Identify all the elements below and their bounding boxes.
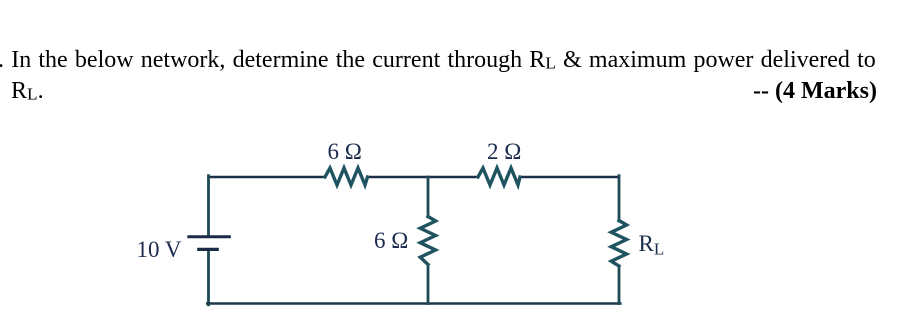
wire bottom xyxy=(207,302,620,305)
svg-text:2 Ω: 2 Ω xyxy=(487,139,521,164)
wire left vertical upper xyxy=(207,176,210,236)
resistor 2 ohm horizontal zigzag xyxy=(478,168,520,185)
battery V1 long plate xyxy=(189,235,230,238)
svg-text:6 Ω: 6 Ω xyxy=(328,139,362,164)
wire top-right segment xyxy=(520,176,619,179)
svg-text:6 Ω: 6 Ω xyxy=(374,228,408,253)
question text line 1 xyxy=(0,47,876,74)
wire right vertical lower xyxy=(618,266,621,304)
wire top-left segment xyxy=(209,176,326,179)
question text line 2 xyxy=(11,78,44,105)
marks label xyxy=(753,78,877,105)
wire middle vertical upper xyxy=(427,177,430,217)
svg-text:RL: RL xyxy=(639,231,665,259)
svg-text:10 V: 10 V xyxy=(137,237,182,262)
wire middle vertical lower xyxy=(427,265,430,304)
resistor 6 ohm middle vertical zigzag xyxy=(420,217,435,265)
wire right vertical upper xyxy=(618,176,621,221)
wire left vertical lower xyxy=(207,251,210,305)
battery V1 short plate xyxy=(199,248,217,251)
resistor 6 ohm horizontal zigzag xyxy=(325,168,368,185)
wire top-middle segment xyxy=(368,176,479,179)
resistor RL vertical zigzag xyxy=(611,221,626,267)
